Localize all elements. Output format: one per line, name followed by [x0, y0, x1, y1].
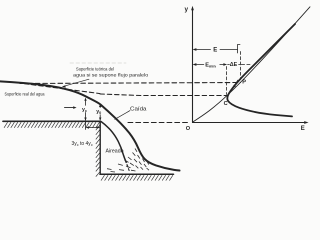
svg-text:Superficie teórica del: Superficie teórica del [76, 67, 114, 72]
small arrow P toward C [234, 80, 238, 86]
svg-text:O: O [186, 126, 191, 132]
step wall (drop face) [99, 121, 101, 174]
E axis [193, 122, 307, 124]
faint guide dashes [70, 62, 126, 64]
svg-text:Aireado: Aireado [106, 149, 124, 155]
label: yc [82, 106, 89, 113]
dimension 3yc to 4yc (horizontal below ground) [87, 127, 99, 129]
svg-text:3yc to 4yc: 3yc to 4yc [72, 141, 93, 147]
bed level dashes to origin O [128, 122, 189, 124]
svg-text:Caída: Caída [130, 106, 147, 112]
dashed vertical at E / P [240, 52, 242, 79]
wall hatch [96, 125, 100, 177]
svg-text:Superficie real del agua: Superficie real del agua [5, 91, 45, 97]
dimension Emin [194, 64, 226, 66]
svg-text:E: E [301, 126, 305, 132]
svg-text:E: E [213, 47, 217, 53]
45-degree line from O [193, 7, 310, 122]
ground line (channel bed) [3, 120, 100, 122]
apron hatch [101, 175, 173, 180]
lower nappe [101, 122, 126, 163]
ground hatch [4, 122, 99, 128]
svg-text:C: C [224, 101, 228, 107]
dimension dE [228, 64, 241, 66]
svg-text:ΔE: ΔE [230, 62, 238, 68]
svg-text:agua si se supone flujo parale: agua si se supone flujo paralelo [73, 72, 149, 77]
specific energy curve [227, 24, 295, 116]
spray / aerated splash marks [107, 149, 149, 173]
leader arrow from theoretical-surface label [64, 79, 90, 86]
dashed level line to C (critical depth level) [100, 94, 227, 96]
dimension y0 [99, 105, 101, 120]
theoretical water surface (sloping dashed) [17, 83, 100, 94]
flow arrow [65, 107, 75, 109]
lower bed (apron) [100, 173, 174, 175]
dashed level line to P (upstream depth level) [20, 83, 241, 84]
dimension E [194, 49, 237, 51]
svg-text:P: P [242, 80, 246, 86]
y axis [192, 9, 194, 123]
dimension yc [85, 99, 87, 130]
lower nappe breakup dashes [127, 165, 129, 171]
label: y0 [96, 108, 103, 115]
dashed vertical at Emin / C [226, 67, 228, 95]
leader from Caida label [115, 111, 130, 120]
svg-text:y: y [185, 6, 189, 13]
real water surface + falling upper nappe [0, 81, 180, 170]
